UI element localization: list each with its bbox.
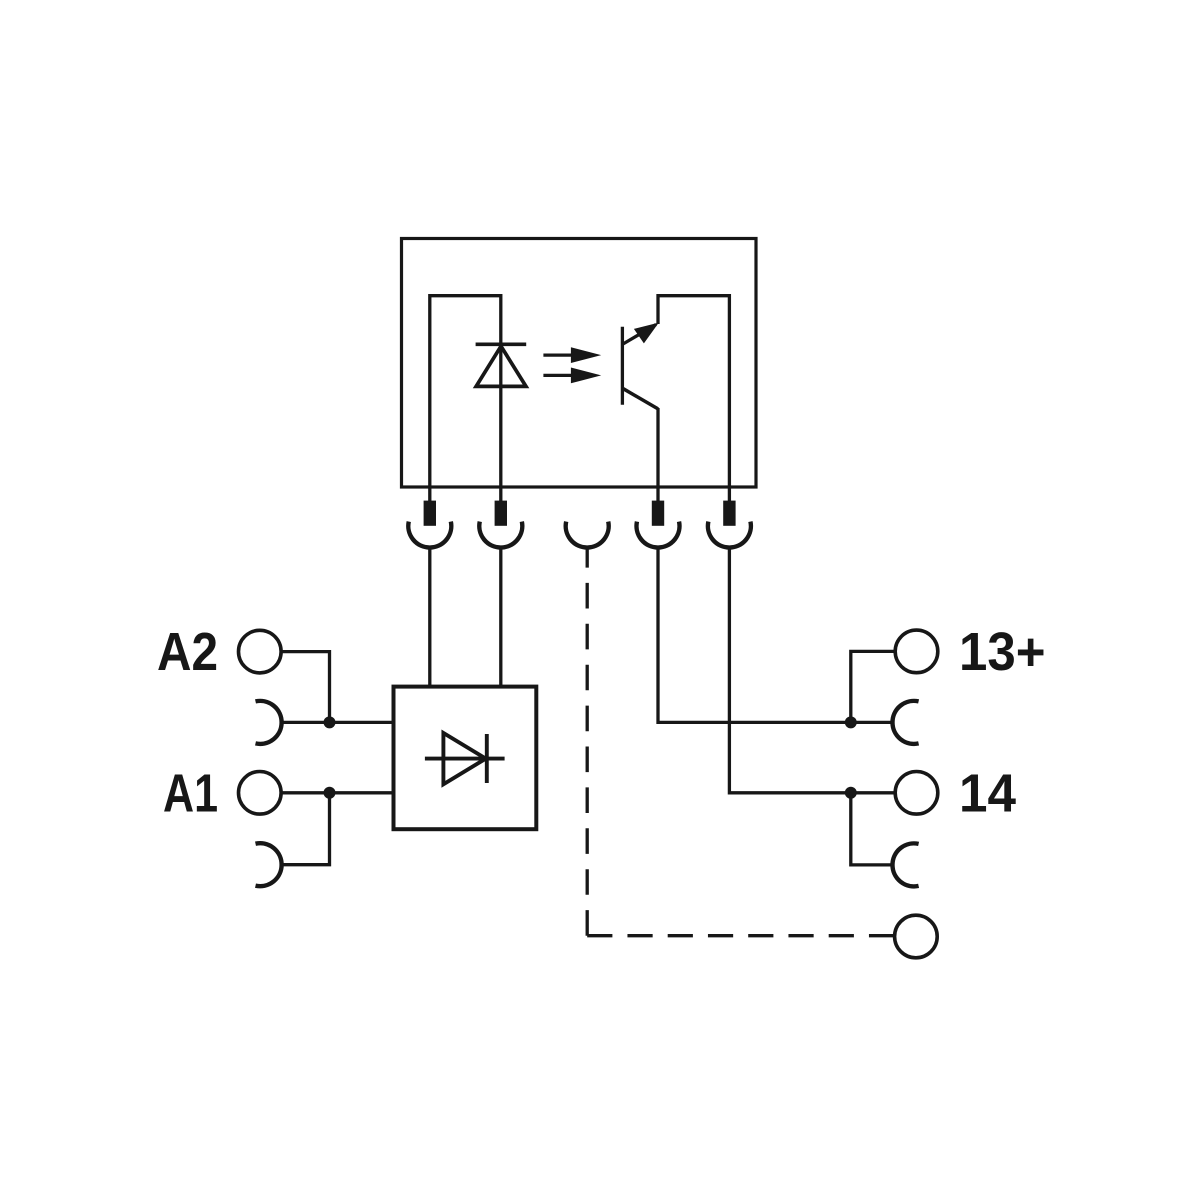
- wire LED input loop: pin1 up, across, down through LED to pin2: [430, 296, 501, 501]
- wire pin2 down to rectifier: [499, 548, 502, 687]
- clamp lower-right: [892, 843, 918, 886]
- transistor Q1 emitter diagonal: [622, 388, 658, 409]
- transistor Q1 collector diagonal: [623, 325, 656, 345]
- wire dashed from pin3 down: [586, 548, 589, 936]
- diode LED cathode bar: [476, 342, 527, 346]
- diode D1 axis line: [425, 757, 505, 761]
- wire A1 to rectifier box: [282, 791, 394, 794]
- terminal circle A2: [238, 630, 281, 673]
- op-amp U1 outer package box (optocoupler): [402, 239, 757, 488]
- clamp upper-left: [256, 701, 282, 744]
- wire junction down to lower-left clamp: [282, 793, 330, 865]
- transistor Q1 base line: [621, 327, 624, 405]
- svg-text:13+: 13+: [959, 623, 1046, 682]
- pin 5 clamp: [708, 522, 751, 548]
- terminal circle A1: [238, 772, 281, 815]
- wire junction up to 13+ circle: [851, 651, 895, 722]
- wire pin1 down to rectifier: [428, 548, 431, 687]
- wire dashed horizontal to bottom terminal: [587, 934, 894, 937]
- pin 5 plug: [723, 501, 735, 526]
- diode LED triangle: [476, 346, 526, 386]
- node junction 14: [845, 787, 857, 799]
- pin 4 clamp: [637, 522, 680, 548]
- wire A2 to junction: [282, 652, 330, 723]
- diode D1 cathode bar: [485, 734, 489, 783]
- terminal circle bottom unlabeled: [895, 915, 938, 958]
- wire pin5 down and right to 14 row: [729, 548, 894, 793]
- wire collector up, across top, down to pin5: [658, 296, 729, 501]
- pin 1 clamp: [408, 522, 451, 548]
- pin 2 clamp: [479, 522, 522, 548]
- light arrow lower: [543, 368, 601, 384]
- pin 1 plug: [424, 501, 436, 526]
- rectifier bridge box: [394, 687, 537, 830]
- wire pin4 down and right to 13+ row: [658, 548, 893, 723]
- svg-text:A2: A2: [157, 623, 218, 682]
- clamp upper-right: [892, 701, 918, 744]
- svg-text:14: 14: [959, 764, 1016, 823]
- node junction A1: [324, 787, 336, 799]
- pin 3 clamp: [566, 522, 609, 548]
- terminal circle 13+: [895, 630, 938, 673]
- svg-text:A1: A1: [163, 764, 218, 823]
- wire emitter down to pin4: [656, 408, 659, 501]
- diode D1 triangle: [443, 733, 485, 784]
- wire junction down to lower-right clamp: [851, 793, 893, 865]
- clamp lower-left: [256, 843, 282, 886]
- node junction A2/clamp: [324, 716, 336, 728]
- terminal circle 14: [895, 772, 938, 815]
- node junction 13+: [845, 716, 857, 728]
- pin 4 plug: [652, 501, 664, 526]
- light arrow upper: [543, 347, 601, 363]
- pin 2 plug: [495, 501, 507, 526]
- transistor Q1 collector arrowhead: [634, 323, 659, 344]
- wire clamp to rectifier box: [282, 721, 394, 724]
